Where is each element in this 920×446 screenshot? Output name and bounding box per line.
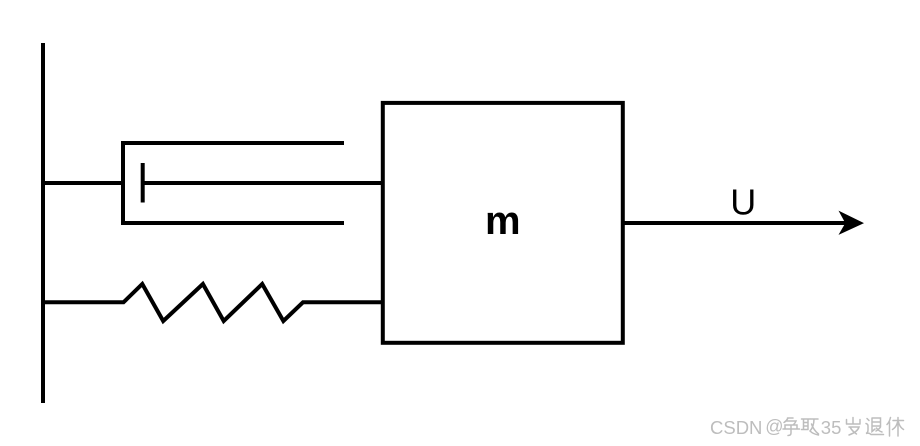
svg-text:@: @ [765,417,783,437]
watermark CSDN @争取35岁退休 [710,417,841,438]
wire (arrow shaft from mass) [623,221,846,225]
wire (wall to damper cylinder) [43,181,123,185]
damper C1 cylinder (open right) [123,143,344,223]
wall (fixed support, vertical line) [41,43,45,403]
watermark glyph 休 [887,418,904,437]
damper C1 piston rod to mass [143,181,383,185]
svg-text:m: m [485,199,521,243]
watermark glyph 争 [783,418,800,436]
damper C1 piston plate [141,163,145,203]
arrowhead of U [839,211,865,235]
svg-text:CSDN: CSDN [710,417,762,438]
svg-text:35: 35 [821,417,842,438]
svg-text:U: U [730,181,756,222]
watermark glyph 退 [866,418,884,435]
watermark glyph 取 [802,419,819,435]
mass block m [383,103,623,343]
spring K1 (zigzag, wall to mass) [43,284,383,321]
watermark glyph 岁 [847,418,861,436]
